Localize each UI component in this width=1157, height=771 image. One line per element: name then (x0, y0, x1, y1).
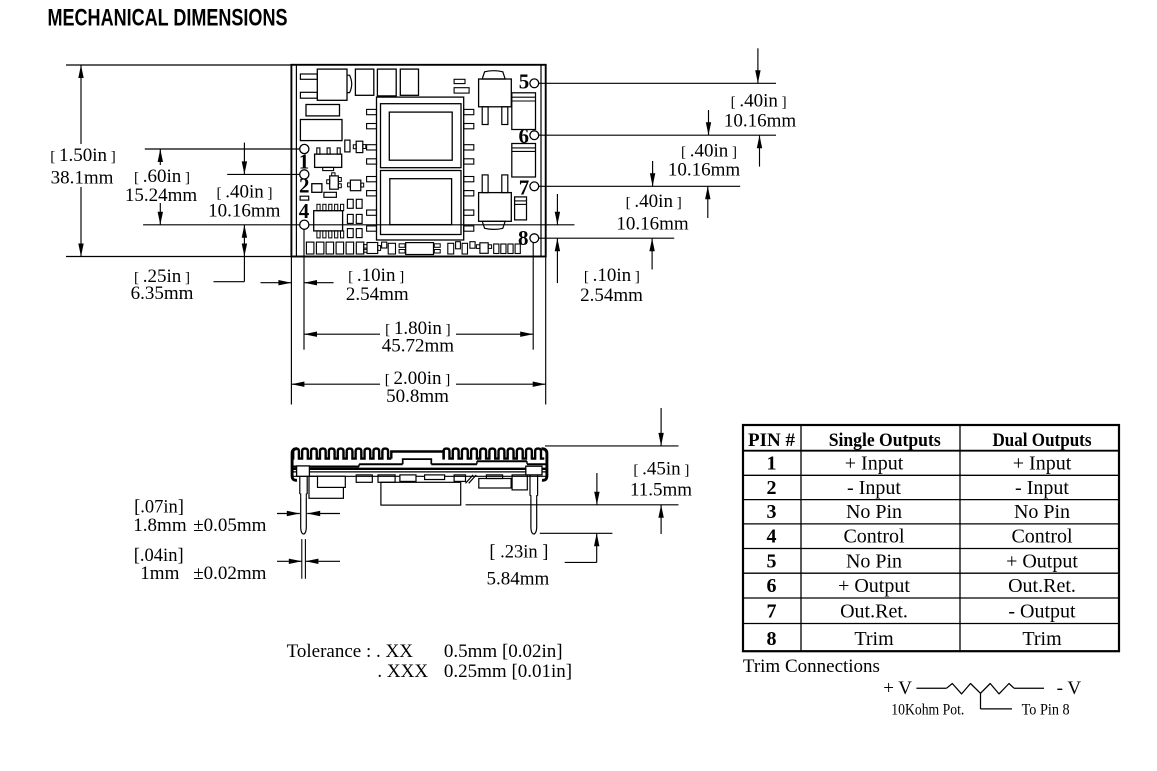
pin tip reference line (540, 532, 613, 534)
svg-text:1.8mm: 1.8mm (133, 515, 187, 536)
arrowhead up at board top (78, 65, 83, 78)
heatsink right end curl (542, 449, 547, 481)
pad (bottom row) (382, 242, 387, 248)
dimension .40in pin5-pin6 arrows (757, 48, 759, 83)
dimension .07in arrows (pin diameter) (277, 513, 300, 515)
table row line (743, 572, 1119, 574)
left pin (side view) (300, 476, 307, 494)
svg-text:2.54mm: 2.54mm (346, 284, 409, 305)
svg-text:Out.Ret.: Out.Ret. (1008, 575, 1076, 597)
table row line (743, 597, 1119, 599)
svg-text:8: 8 (767, 628, 777, 650)
svg-text:Tolerance : . XX: Tolerance : . XX (287, 641, 414, 662)
component bottom reference line (466, 504, 679, 506)
transistor Q6 (sot-23 right of Q5) (350, 180, 360, 191)
svg-text:- Output: - Output (1008, 601, 1076, 623)
pin 3 blank pad (300, 196, 309, 200)
resistor R5 (top middle) (454, 88, 469, 93)
component silhouette H2 (side view) (479, 479, 511, 489)
component silhouette C (side view) (378, 475, 395, 482)
svg-text:Trim Connections: Trim Connections (743, 656, 880, 677)
svg-text:6: 6 (519, 124, 530, 148)
leader hook for .23in (565, 561, 597, 563)
svg-text:10.16mm: 10.16mm (724, 110, 797, 131)
pin 5 pad circle (530, 79, 539, 88)
capacitor C6 (electrolytic, below pin 6) (512, 144, 536, 178)
svg-text:[ .45in ]: [ .45in ] (633, 459, 689, 480)
transformer pin stubs left side (367, 109, 377, 114)
transformer T1 body (381, 104, 462, 168)
pin 8 row line (539, 237, 675, 239)
svg-text:[ .10in ]: [ .10in ] (584, 265, 640, 286)
pad (bottom row right) (448, 243, 454, 254)
svg-text:MECHANICAL DIMENSIONS: MECHANICAL DIMENSIONS (48, 5, 288, 32)
transistor Q4 (sot-23 near transformer) (356, 141, 363, 152)
resistor R3 (small) (324, 192, 337, 197)
transformer T2 body (381, 171, 462, 235)
extension line below pin 8 (532, 243, 534, 350)
PCB board bar (side view) (291, 471, 547, 473)
pad (bottom row right) (470, 242, 475, 249)
side view heatsink finned profile (293, 449, 391, 460)
extension line board top (66, 64, 291, 66)
table column line 2 (959, 425, 961, 651)
svg-text:6.35mm: 6.35mm (131, 283, 194, 304)
component silhouette H3 (side view) (512, 475, 527, 490)
svg-text:- V: - V (1057, 678, 1082, 699)
dimension .23in arrow (596, 533, 598, 562)
dimension 1.80in line (304, 333, 380, 335)
pin 6 row line (539, 134, 776, 136)
svg-text:[ .23in ]: [ .23in ] (489, 543, 548, 563)
svg-text:50.8mm: 50.8mm (386, 386, 449, 407)
resistor R4 (top middle) (454, 79, 465, 83)
svg-text:±0.02mm: ±0.02mm (193, 563, 266, 584)
svg-text:Out.Ret.: Out.Ret. (840, 601, 908, 623)
board left inner edge line (295, 65, 297, 257)
capacitor bank (2x3 small pads right of U1) (347, 199, 353, 208)
extension line left board edge down (290, 257, 292, 405)
svg-text:45.72mm: 45.72mm (382, 336, 455, 357)
svg-text:1: 1 (767, 453, 777, 475)
svg-text:[ 1.50in ]: [ 1.50in ] (50, 145, 116, 166)
svg-text:11.5mm: 11.5mm (630, 480, 692, 501)
dimension .40in (pin2 to pin4) upper arrow (243, 143, 245, 175)
pin 1 row line (145, 148, 300, 150)
pin 1 pad circle (300, 144, 309, 153)
dimension .45in lower arrow (660, 505, 662, 534)
svg-text:1: 1 (299, 150, 310, 174)
dimension 1.50in vertical line (80, 65, 82, 144)
table row line (743, 523, 1119, 525)
component L1 (left block) (300, 120, 342, 141)
heatsink centre plateau (391, 452, 443, 459)
extension line heatsink top right (545, 445, 679, 447)
leader hook for .25in (214, 281, 245, 283)
svg-text:+ Output: + Output (1006, 550, 1078, 572)
connector J1 right bump (347, 75, 352, 92)
svg-text:10.16mm: 10.16mm (668, 159, 741, 180)
left pin thin diameter projection lines (301, 539, 303, 579)
component silhouette H1 (side view) (486, 475, 502, 479)
svg-text:±0.05mm: ±0.05mm (193, 515, 266, 536)
table column line 1 (800, 425, 802, 651)
transistor Q7 (bottom row) (367, 243, 378, 254)
capacitor C3 (top row) (400, 69, 418, 95)
extension line right board edge down (545, 257, 547, 405)
dimension .04in arrows (pin tip diameter) (277, 560, 302, 562)
arrowhead up at pin1 row (158, 149, 163, 162)
table row line (743, 623, 1119, 625)
dimension .40in pin7-pin8 arrows (652, 161, 654, 186)
potentiometer R (10Kohm) zigzag (947, 684, 1014, 694)
IC U1 body with pins (317, 204, 320, 210)
svg-text:No Pin: No Pin (1014, 501, 1070, 523)
pad (bottom row right) (456, 242, 461, 249)
pin 8 pad circle (530, 234, 539, 243)
potentiometer wiper to pin 8 (980, 693, 982, 709)
component silhouette F (side view) (454, 475, 465, 482)
svg-text:2: 2 (299, 173, 310, 197)
svg-text:PIN #: PIN # (748, 430, 795, 451)
dimension .40in pin6-pin7 arrows (708, 110, 710, 135)
extension line board bottom left (66, 256, 291, 258)
pin 5 row line (539, 82, 776, 84)
diode D1 (bottom centre) with side tabs (399, 244, 405, 248)
component G diagonal leads (side view) (466, 475, 474, 483)
svg-text:5: 5 (519, 70, 530, 94)
transistor Q1 TO-220 (top right) (482, 71, 505, 79)
component silhouette B (side view) (356, 475, 372, 482)
dimension 2.00in line (291, 383, 380, 385)
pin 6 pad circle (530, 131, 539, 140)
table row line (743, 548, 1119, 550)
left pin shoulder block (297, 466, 310, 476)
svg-text:10.16mm: 10.16mm (208, 200, 281, 221)
svg-text:5: 5 (767, 550, 777, 572)
svg-text:+ Output: + Output (838, 575, 910, 597)
connector J1 left leads (300, 74, 317, 79)
component silhouette D2 (side view) (425, 475, 445, 480)
transistor Q3 (3-lead part below pin1) (317, 148, 320, 154)
svg-text:Single Outputs: Single Outputs (829, 430, 941, 451)
svg-text:7: 7 (767, 601, 777, 623)
svg-text:[ .40in ]: [ .40in ] (681, 141, 737, 162)
svg-text:7: 7 (519, 175, 530, 199)
pad (bottom row) (388, 243, 395, 254)
svg-text:To Pin 8: To Pin 8 (1022, 701, 1070, 718)
component silhouette A1 (side view) (318, 476, 346, 487)
table row line (743, 499, 1119, 501)
svg-text:[ .40in ]: [ .40in ] (216, 181, 272, 202)
arrowhead down at board bottom (78, 244, 83, 257)
svg-text:1mm: 1mm (140, 563, 179, 584)
svg-text:Dual Outputs: Dual Outputs (993, 430, 1092, 451)
pin 2 row line (227, 173, 300, 175)
capacitor C5 (electrolytic, right of Q1) (512, 93, 536, 130)
svg-text:- Input: - Input (1015, 477, 1069, 499)
transistor Q8 (bottom row right) (480, 243, 488, 254)
table row line (743, 474, 1119, 476)
capacitor C4 (small square) (312, 184, 322, 193)
svg-text:8: 8 (518, 226, 529, 250)
svg-text:Control: Control (843, 526, 905, 548)
svg-text:2: 2 (767, 477, 777, 499)
dimension .10in bottom left arrows (261, 282, 292, 284)
svg-text:- Input: - Input (847, 477, 901, 499)
component silhouette A2 (side view) (309, 476, 343, 498)
svg-text:10Kohm Pot.: 10Kohm Pot. (891, 701, 964, 718)
svg-text:0.25mm [0.01in]: 0.25mm [0.01in] (444, 661, 572, 682)
svg-text:[ .40in ]: [ .40in ] (626, 191, 682, 212)
component silhouette E large (side view) (381, 482, 461, 505)
bottom pad row far right (494, 244, 499, 254)
svg-text:Control: Control (1011, 526, 1073, 548)
heatsink base band (292, 468, 547, 470)
component silhouette D (side view) (400, 475, 416, 482)
capacitor C7 (small, below pin 7) (515, 197, 527, 220)
svg-text:4: 4 (767, 526, 777, 548)
top view: PCB board outline (291, 65, 545, 257)
svg-text:Trim: Trim (854, 628, 894, 650)
pin 7 row line (539, 185, 741, 187)
dimension .10in (pin4 row to pin8 row) arrows (556, 194, 558, 225)
arrowhead down at pin2 row (242, 161, 247, 174)
svg-text:5.84mm: 5.84mm (486, 569, 549, 590)
extension line below pin 4 (303, 229, 305, 350)
transistor Q2 TO-220 (bottom right, inverted) (482, 175, 488, 193)
pin 7 pad circle (530, 182, 539, 191)
svg-text:. XXX: . XXX (377, 661, 428, 682)
dimension .60in vertical line (pin1 to pin4) (159, 149, 161, 165)
bottom pad row (resistors) (306, 242, 314, 254)
svg-text:10.16mm: 10.16mm (616, 214, 689, 235)
heatsink left end curl (292, 449, 297, 481)
table header separator (743, 450, 1119, 452)
pin 4 row line (extends across board) (143, 224, 574, 226)
svg-text:2.54mm: 2.54mm (580, 285, 643, 306)
transformer assembly outer frame T1/T2 (377, 97, 464, 240)
svg-text:0.5mm [0.02in]: 0.5mm [0.02in] (444, 641, 563, 662)
connector J1 body (top-left) (317, 69, 347, 100)
svg-text:3: 3 (767, 501, 777, 523)
svg-text:+ Input: + Input (1013, 453, 1072, 475)
board right inner edge line (540, 65, 542, 257)
pin 4 pad circle (300, 220, 309, 229)
svg-text:4: 4 (299, 199, 310, 223)
right pin shoulder block (526, 466, 542, 475)
svg-text:+ Input: + Input (845, 453, 904, 475)
wire from potentiometer to -V (1014, 687, 1044, 689)
resistor R1 (left block) (306, 105, 340, 116)
dimension .25in (pin4 to board bottom) double arrow (243, 225, 245, 282)
wire from +V to potentiometer (916, 687, 946, 689)
dimension .45in upper arrow (660, 408, 662, 446)
pin 2 pad circle (300, 170, 309, 179)
right pin (side view) (530, 475, 538, 496)
svg-text:[ .40in ]: [ .40in ] (731, 90, 787, 111)
svg-text:No Pin: No Pin (846, 501, 902, 523)
capacitor C2 (top row) (377, 69, 396, 96)
resistor R2 (vertical) (345, 140, 350, 152)
transformer T2 core window (390, 179, 452, 225)
svg-text:+ V: + V (883, 678, 912, 699)
capacitor C1 (top row) (355, 69, 373, 95)
transistor Q5 (sot-23 centre-left) (330, 176, 339, 189)
svg-text:38.1mm: 38.1mm (51, 168, 114, 189)
svg-text:Trim: Trim (1022, 628, 1062, 650)
pad (bottom row right) (462, 243, 467, 254)
arrowhead down at pin4 row (158, 212, 163, 225)
svg-text:6: 6 (767, 575, 777, 597)
transformer T1 core window (389, 112, 452, 160)
pin function table frame (743, 425, 1119, 651)
svg-text:15.24mm: 15.24mm (125, 185, 198, 206)
svg-text:No Pin: No Pin (846, 550, 902, 572)
heatsink boss under plateau (403, 459, 432, 464)
transformer pin stubs right side (464, 109, 474, 114)
down arrow to component bottom line (596, 473, 598, 505)
